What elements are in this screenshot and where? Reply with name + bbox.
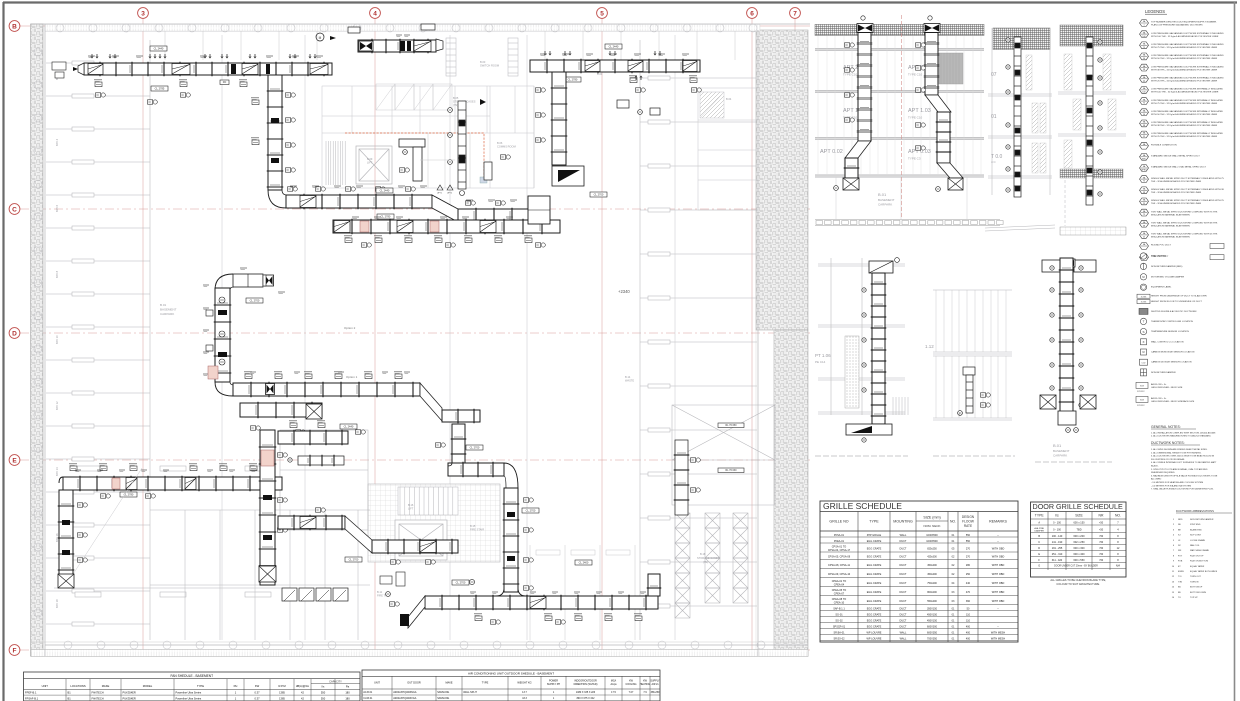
svg-text:CARBON MONOXIDE SENSOR LOCATIO: CARBON MONOXIDE SENSOR LOCATION xyxy=(1151,351,1195,354)
svg-text:APT 0.02: APT 0.02 xyxy=(820,149,843,155)
svg-text:X.XXX: X.XXX xyxy=(1141,296,1147,298)
supply duct run R10 row E horizontal xyxy=(63,477,282,490)
svg-text:25: 25 xyxy=(1143,80,1145,82)
svg-text:B.15: B.15 xyxy=(470,524,476,528)
svg-text:250: 250 xyxy=(966,573,971,576)
svg-text:MAKE: MAKE xyxy=(445,682,452,685)
svg-text:EGG CRATE: EGG CRATE xyxy=(867,619,882,622)
svg-text:3. ALL DUCTWORK OVER 450mm WID: 3. ALL DUCTWORK OVER 450mm WIDE TO BE BE… xyxy=(1151,455,1215,458)
R11 diagonal jog xyxy=(345,516,372,553)
svg-text:400: 400 xyxy=(966,637,971,640)
svg-text:01: 01 xyxy=(991,114,997,120)
svg-text:WITH 25 THK - 32 Kg/m3 ALUMINI: WITH 25 THK - 32 Kg/m3 ALUMINIUM FACED P… xyxy=(1151,135,1218,138)
svg-text:<50: <50 xyxy=(1099,559,1104,562)
legend equipment label xyxy=(1140,284,1146,290)
svg-text:LIFT 1: LIFT 1 xyxy=(437,192,442,194)
svg-text:EQUIPMENT LABEL: EQUIPMENT LABEL xyxy=(1151,286,1172,289)
R10 corner elbow xyxy=(59,477,63,483)
legend hex entry 16 xyxy=(1140,187,1149,194)
svg-text:SJ: SJ xyxy=(1178,535,1180,537)
svg-text:350X150: 350X150 xyxy=(927,607,938,610)
legend hex entry 6 xyxy=(1140,75,1149,82)
svg-text:WITH OBD: WITH OBD xyxy=(992,582,1005,585)
grid line 7 xyxy=(794,18,796,656)
svg-text:TYPE: TYPE xyxy=(1035,514,1045,518)
storage cages B.18 xyxy=(675,513,748,618)
svg-text:75: 75 xyxy=(1143,47,1145,49)
svg-text:HEATING: HEATING xyxy=(640,683,651,686)
svg-text:WALL: WALL xyxy=(900,637,907,640)
section 7 riser vertical xyxy=(1060,258,1073,420)
bottom-left parking rows xyxy=(54,466,290,597)
svg-text:FOB: FOB xyxy=(1178,561,1183,563)
grid line 3 xyxy=(142,18,144,656)
svg-text:RL 76 050: RL 76 050 xyxy=(726,424,738,427)
svg-text:LIFT: LIFT xyxy=(408,507,414,511)
svg-text:WITH 38 THK - 32 Kg/m3 ALUMINI: WITH 38 THK - 32 Kg/m3 ALUMINIUM FACED P… xyxy=(1151,68,1218,71)
R2 left side annotations xyxy=(252,100,259,105)
svg-text:CL 2440: CL 2440 xyxy=(344,425,354,429)
svg-text:1385: 1385 xyxy=(279,691,285,695)
svg-text:TYPE C10: TYPE C10 xyxy=(908,73,923,77)
svg-text:270: 270 xyxy=(966,556,971,559)
svg-text:STORAGE CAGES: STORAGE CAGES xyxy=(697,556,720,560)
svg-text:dB(A)@3m: dB(A)@3m xyxy=(296,684,310,688)
column circles bottom wall xyxy=(64,641,765,649)
svg-text:WITH OBD: WITH OBD xyxy=(992,547,1005,550)
R13 right vertical stub xyxy=(648,574,660,596)
svg-text:DOOR UNDER CUT 20mm - BY BUILD: DOOR UNDER CUT 20mm - BY BUILDER xyxy=(1054,565,1098,567)
svg-text:CL 2785: CL 2785 xyxy=(155,87,165,91)
section 4 floors xyxy=(1058,92,1126,136)
svg-text:<50: <50 xyxy=(1099,522,1104,525)
svg-text:XXX: XXX xyxy=(1140,385,1145,387)
top AHU cluster run R5 xyxy=(358,40,436,52)
svg-text:EGG CRATE: EGG CRATE xyxy=(867,625,882,628)
building right wall hatched cavity lower xyxy=(774,330,808,656)
svg-text:BAY 18: BAY 18 xyxy=(55,599,59,608)
svg-text:450X150: 450X150 xyxy=(927,613,938,616)
svg-text:50: 50 xyxy=(1143,58,1145,60)
svg-text:ALL GRILLES TO BE CHEVRON BLAD: ALL GRILLES TO BE CHEVRON BLADE TYPE, xyxy=(1050,578,1106,582)
small dark damper R1 xyxy=(231,64,236,74)
svg-text:WITH MESH: WITH MESH xyxy=(991,637,1005,640)
svg-text:2. ALL DIMENSIONAL RESIZE TO B: 2. ALL DIMENSIONAL RESIZE TO BE FITTINGN… xyxy=(1151,451,1202,454)
legend hex entry 2 xyxy=(1140,31,1149,38)
svg-text:B1: B1 xyxy=(68,691,72,695)
svg-text:WITH 38 THK - 32 Kg/m3 ALUMINI: WITH 38 THK - 32 Kg/m3 ALUMINIUM FACED P… xyxy=(1151,124,1218,127)
svg-text:5: 5 xyxy=(600,10,604,17)
svg-text:B.01: B.01 xyxy=(1053,443,1062,448)
svg-text:ROUND PVC DUCT: ROUND PVC DUCT xyxy=(1151,245,1171,247)
svg-text:--: -- xyxy=(997,540,999,543)
legend hex entry 21 xyxy=(1140,243,1149,250)
legend hex entry 10 xyxy=(1140,120,1149,127)
svg-text:CPSA-09, CPSA-10: CPSA-09, CPSA-10 xyxy=(828,573,851,576)
svg-text:TYPE C3: TYPE C3 xyxy=(908,157,921,161)
svg-text:WITH 75 THK - 32 Kg/m3 ALUMINI: WITH 75 THK - 32 Kg/m3 ALUMINIUM FACED P… xyxy=(1151,46,1218,49)
svg-text:75: 75 xyxy=(1143,181,1145,183)
svg-text:7: 7 xyxy=(793,10,797,17)
riser 2 lower jog xyxy=(937,163,963,178)
section 3 roof band xyxy=(993,28,1050,50)
svg-text:CO2: CO2 xyxy=(1142,362,1146,364)
svg-text:4. ALL VISIBLE INTERNAL DUCT S: 4. ALL VISIBLE INTERNAL DUCT SURFACES TO… xyxy=(1151,461,1217,464)
svg-text:UNIT: UNIT xyxy=(374,682,380,685)
svg-text:CL 2700: CL 2700 xyxy=(594,193,604,197)
svg-text:B.14: B.14 xyxy=(625,375,631,379)
svg-text:FD: FD xyxy=(223,80,227,84)
svg-text:FPEF-B.1: FPEF-B.1 xyxy=(25,691,37,695)
section 5 bottom unit with wedge xyxy=(846,424,892,435)
loop duct R12 top horizontal xyxy=(448,463,504,476)
svg-text:BASEMENT: BASEMENT xyxy=(160,308,177,312)
svg-text:--: -- xyxy=(997,534,999,537)
svg-text:BAY 10: BAY 10 xyxy=(55,335,59,344)
svg-text:440: 440 xyxy=(966,582,971,585)
svg-text:38: 38 xyxy=(1143,225,1145,227)
svg-text:450X150: 450X150 xyxy=(927,619,938,622)
grid bubble C xyxy=(9,204,20,215)
svg-text:B.03: B.03 xyxy=(480,60,486,64)
R11b horizontal xyxy=(372,540,458,553)
svg-text:EGG CRATE: EGG CRATE xyxy=(867,613,882,616)
svg-text:LEGENDS: LEGENDS xyxy=(1145,9,1165,14)
legend carbon monoxide sensor xyxy=(1141,349,1147,355)
svg-text:G: G xyxy=(1038,564,1040,567)
svg-text:AIR l/s: AIR l/s xyxy=(651,683,659,686)
svg-text:DIMENTION (WxHxD): DIMENTION (WxHxD) xyxy=(574,683,598,686)
riser 1 vertical duct xyxy=(858,33,871,142)
R8 top elbow xyxy=(215,274,233,290)
section 1 basement columns xyxy=(836,177,967,219)
grid bubble F xyxy=(9,645,20,656)
svg-text:AIR FLOW + l/s: AIR FLOW + l/s xyxy=(1151,397,1167,400)
grid bubble 6 xyxy=(747,8,758,19)
legend hex entry 19 xyxy=(1140,220,1149,227)
svg-text:3: 3 xyxy=(141,10,145,17)
svg-text:REMARKS: REMARKS xyxy=(989,520,1007,524)
svg-text:25: 25 xyxy=(1143,136,1145,138)
svg-text:SAMSUNG: SAMSUNG xyxy=(437,691,449,694)
svg-text:CPSA-04, CPSA-17: CPSA-04, CPSA-17 xyxy=(828,549,851,552)
svg-text:DUCTWORK NOTES:: DUCTWORK NOTES: xyxy=(1151,441,1185,445)
svg-text:EGG CRATE: EGG CRATE xyxy=(867,556,882,559)
svg-text:B.01: B.01 xyxy=(878,192,887,197)
R10 option run upper xyxy=(278,431,348,444)
section 1 ground xyxy=(815,220,1003,226)
svg-text:NON RETURN DAMPER: NON RETURN DAMPER xyxy=(1190,518,1214,521)
svg-text:890 X 675 X 342: 890 X 675 X 342 xyxy=(577,697,595,700)
svg-text:FPSAF-B.1: FPSAF-B.1 xyxy=(25,696,39,700)
svg-text:RL 76 030: RL 76 030 xyxy=(726,469,738,472)
legend motorised volume damper xyxy=(1140,274,1146,280)
svg-text:TURN IN: TURN IN xyxy=(1190,581,1199,583)
section 4 bottom hatch xyxy=(1060,227,1126,235)
svg-text:LOW PRESSURE GALVANISED DUCTWO: LOW PRESSURE GALVANISED DUCTWORK INTERNA… xyxy=(1151,110,1223,113)
svg-text:TYPE C10: TYPE C10 xyxy=(908,116,923,120)
section 5 stair lines xyxy=(893,397,908,415)
svg-text:800x200: 800x200 xyxy=(927,591,937,594)
comms room cluster xyxy=(501,155,506,159)
section 4 dashed column xyxy=(1064,180,1066,226)
svg-text:DESIGN: DESIGN xyxy=(962,515,975,519)
svg-text:EQUAL TAPER BOTH WAYS: EQUAL TAPER BOTH WAYS xyxy=(1190,570,1218,573)
top strip bay dividers xyxy=(165,31,735,60)
svg-text:DOOR GRILLE SCHEDULE: DOOR GRILLE SCHEDULE xyxy=(1033,502,1123,511)
svg-text:SINGLE WALL METAL SPIRO DUCT E: SINGLE WALL METAL SPIRO DUCT EXTERNALLY … xyxy=(1151,199,1225,202)
svg-text:600 x 300: 600 x 300 xyxy=(1074,547,1086,550)
svg-text:TWO WALL METAL SPIRO DUCTWORK: TWO WALL METAL SPIRO DUCTWORK COMPLIED W… xyxy=(1151,210,1218,213)
svg-text:PT 1.06: PT 1.06 xyxy=(815,353,831,358)
svg-text:CL 2700: CL 2700 xyxy=(250,299,260,303)
svg-text:1. ALL SIZES SHOWN ARE FINISED: 1. ALL SIZES SHOWN ARE FINISED SHEET MET… xyxy=(1151,448,1208,451)
svg-text:AR24AXHQAWKXGA: AR24AXHQAWKXGA xyxy=(393,697,417,700)
grid bubble 4 xyxy=(370,8,381,19)
svg-text:COLOUR TO SUIT ARCHITECTURE.: COLOUR TO SUIT ARCHITECTURE. xyxy=(1056,582,1100,586)
svg-text:RC: RC xyxy=(1178,545,1182,547)
svg-text:BASEMENT: BASEMENT xyxy=(1053,449,1070,453)
svg-text:CL 2400: CL 2400 xyxy=(579,561,589,565)
svg-text:FAN COIL: FAN COIL xyxy=(1190,544,1200,547)
svg-text:B.06: B.06 xyxy=(497,141,503,145)
bottom core stair xyxy=(398,487,458,515)
svg-text:550: 550 xyxy=(321,696,326,700)
grid line B xyxy=(20,25,810,27)
section 1 roof slab hatched xyxy=(815,24,984,35)
svg-text:SAMSUNG: SAMSUNG xyxy=(437,697,449,700)
svg-text:GRILL/DIFFUSER - NECK SIZE: GRILL/DIFFUSER - NECK SIZE xyxy=(1151,387,1183,389)
svg-text:WITH 50 THK - 32 Kg/m3 ALUMINI: WITH 50 THK - 32 Kg/m3 ALUMINIUM FACED P… xyxy=(1151,113,1218,116)
svg-text:WASTE: WASTE xyxy=(625,379,634,383)
svg-text:EGG CRATE: EGG CRATE xyxy=(867,600,882,603)
svg-text:XXX: XXX xyxy=(1140,399,1145,401)
R13 left diagonal connector xyxy=(408,596,425,628)
svg-text:WITH 75 THK - 32 Kg/m3 ALUMINI: WITH 75 THK - 32 Kg/m3 ALUMINIUM FACED P… xyxy=(1151,102,1218,105)
svg-text:CPSA-05, CPSA-09: CPSA-05, CPSA-09 xyxy=(828,556,851,559)
svg-text:SPSCR-01: SPSCR-01 xyxy=(833,625,846,628)
R8-R9 elbow xyxy=(215,382,233,396)
svg-text:WALL: WALL xyxy=(900,631,907,634)
grid line D xyxy=(20,332,810,334)
svg-text:100: 100 xyxy=(1142,36,1145,38)
svg-text:FOT: FOT xyxy=(1178,555,1183,557)
R3 annotations xyxy=(288,187,293,191)
svg-text:Option 2: Option 2 xyxy=(344,326,356,330)
building right wall hatched cavity upper xyxy=(756,30,808,330)
svg-text:NOM. NECK: NOM. NECK xyxy=(923,524,940,528)
section 7 ground dashed xyxy=(1035,461,1112,463)
svg-text:WALL CONTROL CC LOCATION: WALL CONTROL CC LOCATION xyxy=(1151,340,1184,343)
svg-text:550: 550 xyxy=(321,691,326,695)
svg-text:MOUNTING: MOUNTING xyxy=(893,520,913,524)
legend hex entry 20 xyxy=(1140,232,1149,239)
R7 flag attenuator xyxy=(558,170,580,182)
section 6 ground dashed xyxy=(933,455,1015,457)
svg-text:STANDARD SINGLE WALL METAL SPI: STANDARD SINGLE WALL METAL SPIRO DUCT xyxy=(1151,155,1200,158)
svg-text:B.04: B.04 xyxy=(597,72,603,76)
legend air flow box 2 xyxy=(1136,396,1148,402)
svg-text:43.3: 43.3 xyxy=(522,697,527,700)
svg-text:CL 2440: CL 2440 xyxy=(380,189,390,193)
svg-text:- 3.0 METERS FOR HEATING AND C: - 3.0 METERS FOR HEATING AND COOLING SYS… xyxy=(1151,481,1203,484)
riser 2 damper top xyxy=(924,24,940,33)
section 4 roof band xyxy=(1060,25,1123,46)
supply duct run R2 vertical xyxy=(268,75,282,190)
svg-text:EGG CRATE: EGG CRATE xyxy=(867,564,882,567)
section 5 riser xyxy=(872,273,885,424)
svg-text:FANTECH: FANTECH xyxy=(92,691,104,695)
grid line 6 xyxy=(751,18,753,656)
svg-text:360: 360 xyxy=(966,600,971,603)
svg-text:386-250: 386-250 xyxy=(651,691,660,694)
svg-text:0 - 100: 0 - 100 xyxy=(1053,522,1061,525)
svg-text:EGG CRATE: EGG CRATE xyxy=(867,591,882,594)
riser 1 damper top xyxy=(857,24,873,33)
svg-text:R.P.M: R.P.M xyxy=(278,684,286,688)
legend non return damper symbol xyxy=(1141,369,1147,376)
svg-text:TU: TU xyxy=(1178,597,1181,599)
svg-text:FLOOW: FLOOW xyxy=(962,520,974,524)
svg-text:LOW PRESSURE GALVANISED DUCTWO: LOW PRESSURE GALVANISED DUCTWORK INTERNA… xyxy=(1151,99,1223,102)
section 5 dotted strip xyxy=(845,336,859,408)
svg-text:THERMOSTAT CONTROLLER LOCATION: THERMOSTAT CONTROLLER LOCATION xyxy=(1151,320,1193,323)
svg-text:400: 400 xyxy=(966,625,971,628)
supply duct run R7 vertical at grid5 xyxy=(552,72,566,165)
svg-text:CL 2780: CL 2780 xyxy=(381,215,391,219)
legend hex entry 3 xyxy=(1140,42,1149,49)
svg-text:FAN SHEDULE - BASEMENT: FAN SHEDULE - BASEMENT xyxy=(171,674,214,678)
R2-R3 elbow xyxy=(268,190,286,208)
fire pump room duct fragment xyxy=(298,456,344,465)
svg-text:WITH OBD: WITH OBD xyxy=(992,556,1005,559)
svg-text:WITH 50 THK - 32 Kg/m3 ALUMINI: WITH 50 THK - 32 Kg/m3 ALUMINIUM FACED P… xyxy=(1151,57,1218,60)
legend hex entry 13 xyxy=(1140,153,1149,160)
stair B.08 treads xyxy=(326,141,345,185)
svg-text:TWO WALL METAL SPIRO DUCTWORK: TWO WALL METAL SPIRO DUCTWORK COMPLIED W… xyxy=(1151,221,1218,224)
svg-text:TBD: TBD xyxy=(1077,529,1082,532)
svg-text:DUCT: DUCT xyxy=(900,582,907,585)
svg-text:SUPPLY PH: SUPPLY PH xyxy=(547,683,560,686)
svg-text:INSULATION MATERIAL IN-BETWEEN: INSULATION MATERIAL IN-BETWEEN xyxy=(1151,236,1190,239)
svg-text:ALLOWED:: ALLOWED: xyxy=(1151,478,1162,481)
svg-text:CPEA-10: CPEA-10 xyxy=(834,601,845,604)
svg-text:FIRE STAIR: FIRE STAIR xyxy=(470,528,484,532)
svg-text:DAMPER: DAMPER xyxy=(1035,530,1045,533)
svg-text:DUCT: DUCT xyxy=(900,600,907,603)
grid line F xyxy=(20,649,810,651)
legend wall control xyxy=(1141,339,1147,345)
structural column lines xyxy=(222,35,675,640)
svg-text:600 x 400: 600 x 400 xyxy=(1074,553,1086,556)
svg-text:CPSA-08, CPSA-11: CPSA-08, CPSA-11 xyxy=(828,564,851,567)
bag store run R11 xyxy=(278,516,345,529)
R5 upper boxes xyxy=(348,24,435,33)
svg-text:LOW PRESSURE GALVANISED DUCTWO: LOW PRESSURE GALVANISED DUCTWORK EXTERNA… xyxy=(1151,77,1224,80)
section 3 riser xyxy=(1014,37,1021,197)
vertical duct x675 fire area xyxy=(675,440,688,515)
svg-text:WP LOUVRE: WP LOUVRE xyxy=(867,631,882,634)
svg-text:SG-02: SG-02 xyxy=(835,619,843,622)
svg-text:50: 50 xyxy=(1143,114,1145,116)
svg-text:NON RETURN DAMPER (NRD): NON RETURN DAMPER (NRD) xyxy=(1151,265,1183,268)
svg-text:450x400: 450x400 xyxy=(927,564,937,567)
svg-text:LOOSE FRAME: LOOSE FRAME xyxy=(1190,539,1206,542)
AC units row bottom xyxy=(282,588,348,601)
parking bays left xyxy=(46,40,150,640)
supply duct run R6 row B right xyxy=(530,60,700,72)
svg-text:FIRE DAMPER: FIRE DAMPER xyxy=(1151,255,1166,258)
svg-text:Pa: Pa xyxy=(346,685,350,689)
R8 junction pink box xyxy=(208,366,218,379)
svg-text:FLAT ON BOTTOM: FLAT ON BOTTOM xyxy=(1190,560,1208,563)
svg-text:LOW PRESSURE GALVANISED DUCTWO: LOW PRESSURE GALVANISED DUCTWORK EXTERNA… xyxy=(1151,54,1224,57)
svg-text:(7N): (7N) xyxy=(703,560,708,564)
section 5 ground dashed xyxy=(815,455,908,457)
svg-text:- 4.0 METERS FOR S/A AND E/A S: - 4.0 METERS FOR S/A AND E/A SYSTEM xyxy=(1151,484,1191,487)
svg-text:CU-B.01: CU-B.01 xyxy=(363,697,373,700)
door grille schedule table xyxy=(1031,502,1127,577)
rooms near grid 6 xyxy=(698,88,758,210)
svg-text:100: 100 xyxy=(1142,92,1145,94)
section 1 floor lines xyxy=(815,49,984,178)
section 4 windows diag xyxy=(1064,54,1116,168)
legend thermostat xyxy=(1140,318,1146,324)
svg-text:WITH 25 THK - 32 Kg/m3 ALUMINI: WITH 25 THK - 32 Kg/m3 ALUMINIUM FACED P… xyxy=(1151,80,1218,83)
svg-text:OUT DOOR: OUT DOOR xyxy=(407,682,421,685)
svg-text:EGG CRATE: EGG CRATE xyxy=(867,547,882,550)
legend hex entry 18 xyxy=(1140,209,1149,216)
svg-text:GRILL/DIFFUSER - NECK SIZE/FAC: GRILL/DIFFUSER - NECK SIZE/FACE SIZE xyxy=(1151,400,1195,403)
section 1 red dashed line xyxy=(901,15,903,218)
svg-text:D: D xyxy=(1038,547,1040,550)
svg-text:BD: BD xyxy=(1178,592,1181,594)
R9 vertical stub down xyxy=(452,424,465,464)
svg-text:ESRB: ESRB xyxy=(1178,571,1184,573)
legend hex entry 7 xyxy=(1140,87,1149,94)
legend hex entry 15 xyxy=(1140,176,1149,183)
svg-text:<50: <50 xyxy=(1099,547,1104,550)
supply duct run R3 horizontal row C xyxy=(286,195,432,208)
svg-text:PLAN LOW PRESSURE GALVANISED D: PLAN LOW PRESSURE GALVANISED DUCTWORK xyxy=(1151,24,1203,27)
svg-text:2. ALL DUCTWORK MANUFACTURED T: 2. ALL DUCTWORK MANUFACTURED TO AS4254 S… xyxy=(1151,435,1212,438)
svg-text:SIZE (mm): SIZE (mm) xyxy=(923,516,940,520)
svg-text:SINGLE WALL METAL SPIRO DUCT E: SINGLE WALL METAL SPIRO DUCT EXTERNALLY … xyxy=(1151,188,1225,191)
section 3 floors xyxy=(988,28,1052,195)
svg-text:MAKE: MAKE xyxy=(102,684,110,688)
R4 red boxes xyxy=(360,221,369,232)
svg-text:RATE: RATE xyxy=(964,524,972,528)
svg-text:B: B xyxy=(12,23,17,30)
small elbow duct near lift xyxy=(399,139,425,181)
section 5 structure xyxy=(818,258,905,415)
ramp bottom right xyxy=(672,405,775,505)
svg-text:--: -- xyxy=(997,625,999,628)
svg-text:141 - 190: 141 - 190 xyxy=(1052,541,1063,544)
svg-text:GRILLE SCHEDULE: GRILLE SCHEDULE xyxy=(823,501,902,511)
svg-text:GENERAL NOTES:: GENERAL NOTES: xyxy=(1151,425,1181,429)
riser 1 symbols xyxy=(845,43,850,47)
grid bubble B xyxy=(9,21,20,32)
svg-text:BAY 12: BAY 12 xyxy=(55,401,59,410)
svg-text:TURN OUT: TURN OUT xyxy=(1190,576,1201,578)
svg-text:Option 1: Option 1 xyxy=(346,375,358,379)
svg-text:470: 470 xyxy=(966,591,971,594)
section 7 riser top tee xyxy=(1042,260,1096,272)
svg-text:B.05: B.05 xyxy=(453,96,459,100)
svg-text:KW: KW xyxy=(255,684,260,688)
svg-text:S: S xyxy=(1142,330,1144,334)
